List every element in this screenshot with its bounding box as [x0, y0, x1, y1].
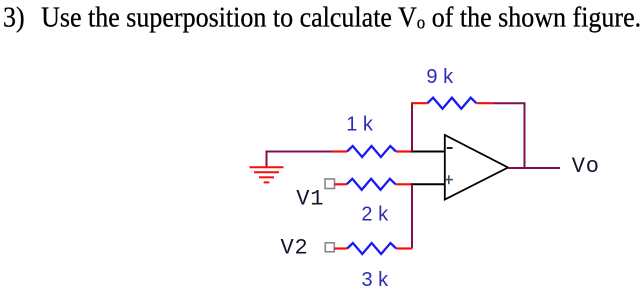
resistor R3 3k [334, 243, 412, 254]
ground [250, 167, 284, 182]
svg-text:V1: V1 [296, 186, 324, 211]
resistor R2 2k [335, 179, 413, 190]
wire: feedback top right + right vertical (maroon) [494, 103, 525, 168]
wire: node B to op-amp plus input (black) [411, 183, 445, 185]
svg-text:Vo: Vo [572, 154, 600, 179]
svg-text:9 k: 9 k [426, 66, 454, 88]
terminal V1 (square) [325, 179, 335, 189]
wire: ground to 1k (maroon) [267, 152, 333, 168]
wire: feedback left vertical (maroon) [411, 102, 413, 151]
resistor R4 9k (feedback) [411, 98, 494, 109]
svg-text:V2: V2 [281, 235, 309, 260]
wire: output (maroon) [508, 167, 560, 169]
op-amp plus pin [445, 175, 453, 184]
svg-text:1 k: 1 k [346, 113, 374, 135]
terminal V2 (square) [325, 243, 334, 252]
wire: node B down to 3k (maroon) [411, 184, 413, 248]
title text [3, 1, 641, 34]
svg-text:2 k: 2 k [361, 203, 389, 225]
resistor R1 1k [332, 146, 412, 157]
op-amp U1 [445, 135, 508, 200]
wire: node A to op-amp minus input (black) [411, 151, 445, 153]
op-amp minus pin [447, 147, 453, 149]
svg-text:3 k: 3 k [362, 269, 390, 291]
